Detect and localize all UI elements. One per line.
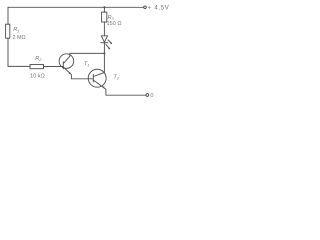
svg-text:150 Ω: 150 Ω — [107, 21, 122, 27]
svg-text:2 MΩ: 2 MΩ — [13, 35, 26, 41]
svg-text:0: 0 — [150, 93, 153, 99]
svg-text:T1: T1 — [84, 61, 90, 67]
svg-text:T2: T2 — [113, 74, 119, 80]
svg-text:R1: R1 — [13, 27, 19, 33]
svg-text:R2: R2 — [35, 56, 42, 62]
svg-text:10 kΩ: 10 kΩ — [30, 73, 45, 79]
svg-text:+ 4,5V: + 4,5V — [148, 6, 170, 12]
